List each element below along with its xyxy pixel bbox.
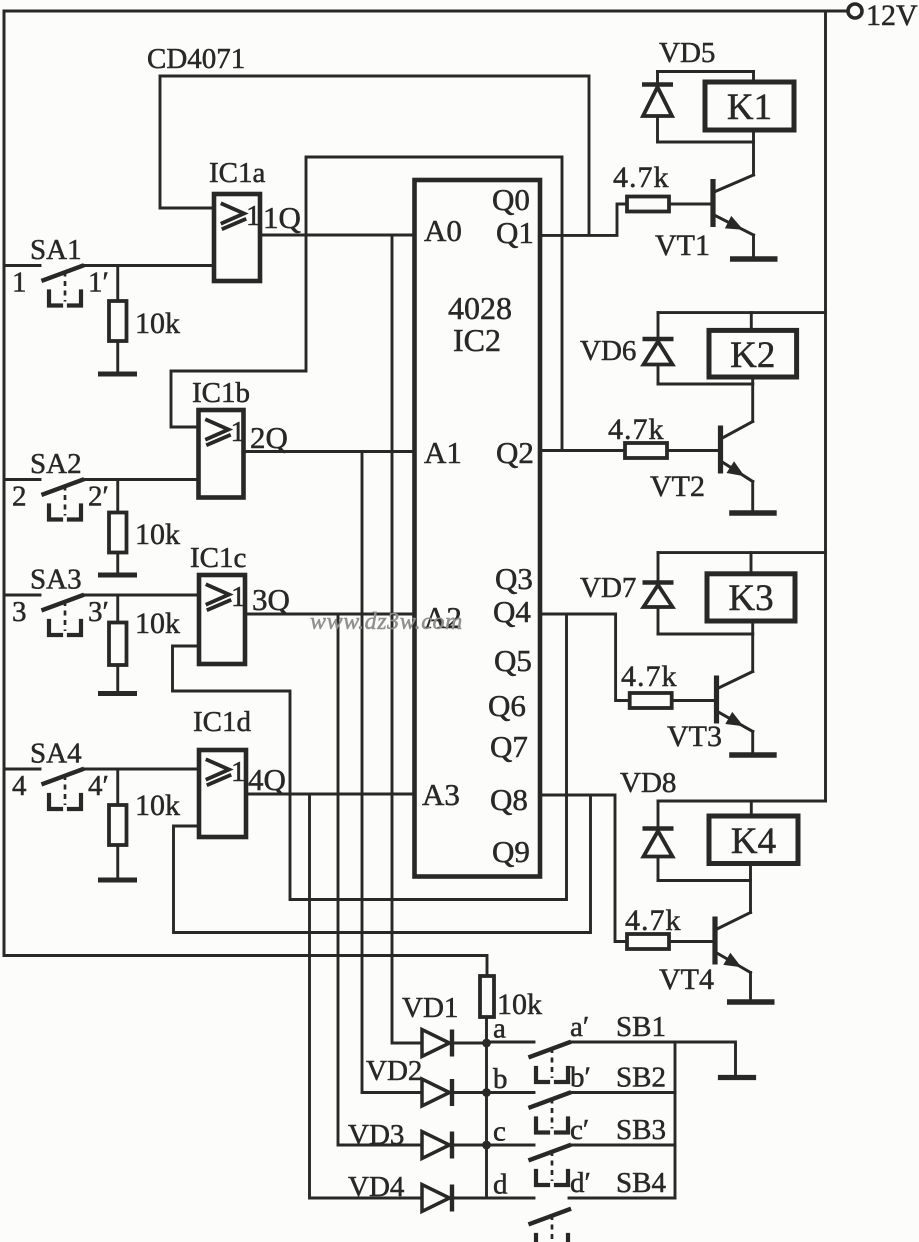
svg-text:www.dz3w.com: www.dz3w.com [310,609,463,635]
svg-text:SB2: SB2 [616,1062,666,1094]
svg-text:1′: 1′ [88,267,109,299]
svg-text:VD7: VD7 [580,572,636,604]
svg-text:VD1: VD1 [402,992,458,1024]
svg-text:3′: 3′ [88,596,109,628]
svg-text:1: 1 [246,200,261,232]
svg-text:4.7k: 4.7k [613,161,670,194]
svg-text:b′: b′ [570,1062,591,1094]
svg-text:2: 2 [12,481,27,513]
svg-text:SA1: SA1 [30,234,82,266]
svg-text:d′: d′ [570,1167,591,1199]
svg-text:d: d [493,1169,508,1201]
svg-text:Q0: Q0 [492,182,530,217]
svg-text:b: b [493,1063,508,1095]
svg-text:K3: K3 [728,578,773,619]
svg-text:12V: 12V [866,0,918,32]
svg-text:Q2: Q2 [496,435,534,470]
svg-text:Q3: Q3 [495,561,533,596]
svg-text:Q6: Q6 [488,688,526,723]
svg-text:Q8: Q8 [490,782,528,817]
svg-text:10k: 10k [135,789,180,822]
svg-text:Q1: Q1 [496,215,534,250]
svg-text:VD3: VD3 [348,1119,404,1151]
svg-text:VT3: VT3 [667,720,722,753]
svg-text:IC1a: IC1a [209,157,266,189]
svg-text:4.7k: 4.7k [625,904,682,937]
svg-text:1: 1 [12,267,27,299]
svg-text:c: c [493,1116,506,1148]
svg-text:4.7k: 4.7k [608,413,665,446]
svg-text:4.7k: 4.7k [621,660,678,693]
svg-text:A1: A1 [424,435,462,470]
svg-text:SA3: SA3 [30,564,82,596]
svg-text:Q5: Q5 [494,643,532,678]
svg-text:K4: K4 [731,821,776,862]
svg-text:Q4: Q4 [493,594,531,629]
svg-text:1: 1 [231,756,246,788]
svg-text:VD8: VD8 [620,767,676,799]
svg-text:SA2: SA2 [30,448,82,480]
svg-text:IC1b: IC1b [192,377,250,409]
svg-text:IC2: IC2 [453,322,501,358]
svg-text:K1: K1 [727,87,772,128]
svg-text:1Q: 1Q [263,200,301,235]
svg-text:a′: a′ [570,1011,589,1043]
svg-text:SB3: SB3 [616,1114,666,1146]
svg-text:K2: K2 [730,335,775,376]
svg-text:A0: A0 [424,213,462,248]
svg-text:3: 3 [12,596,27,628]
svg-text:10k: 10k [135,307,180,340]
svg-text:2′: 2′ [88,481,109,513]
svg-text:a: a [493,1013,506,1045]
svg-text:1: 1 [231,581,246,613]
svg-text:VD5: VD5 [659,37,715,69]
svg-text:4028: 4028 [448,290,512,326]
svg-text:10k: 10k [135,607,180,640]
svg-text:VT2: VT2 [650,470,705,503]
svg-text:1: 1 [231,416,246,448]
svg-text:IC1c: IC1c [190,542,246,574]
svg-text:Q9: Q9 [492,834,530,869]
svg-text:CD4071: CD4071 [147,43,245,75]
svg-text:VT4: VT4 [659,963,714,996]
svg-text:VT1: VT1 [655,229,710,262]
svg-text:4′: 4′ [88,770,109,802]
svg-text:10k: 10k [135,518,180,551]
svg-text:SB1: SB1 [616,1011,666,1043]
svg-text:2Q: 2Q [250,420,288,455]
svg-text:3Q: 3Q [252,582,290,617]
svg-text:IC1d: IC1d [193,706,252,738]
svg-text:c′: c′ [570,1114,589,1146]
svg-text:VD2: VD2 [366,1055,422,1087]
svg-text:VD6: VD6 [580,335,636,367]
svg-text:4: 4 [12,770,27,802]
svg-text:4Q: 4Q [248,762,286,797]
svg-text:SA4: SA4 [30,738,82,770]
svg-text:Q7: Q7 [490,729,528,764]
svg-text:VD4: VD4 [348,1171,405,1203]
svg-text:SB4: SB4 [616,1167,666,1199]
svg-text:A3: A3 [422,777,460,812]
